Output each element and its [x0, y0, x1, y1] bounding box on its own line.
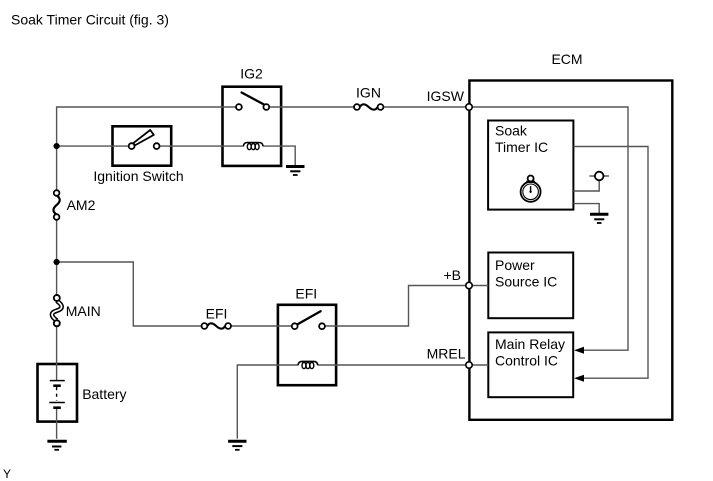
junction at EFI branch	[54, 259, 60, 265]
svg-text:MREL: MREL	[427, 345, 466, 361]
relay EFI switch blade and contacts	[292, 311, 325, 329]
svg-text:+B: +B	[443, 267, 461, 283]
svg-text:AM2: AM2	[67, 197, 96, 213]
battery cells	[49, 381, 65, 408]
junction at ignition row	[54, 143, 60, 149]
svg-text:Control IC: Control IC	[495, 353, 558, 369]
wire soak timer out to arrow 2	[573, 147, 648, 379]
wire MREL node to Main Relay Control IC	[469, 364, 488, 366]
terminal circle near soak timer	[595, 172, 604, 181]
IC U3 Main Relay Control box	[488, 332, 573, 397]
wire EFI relay out to +B node	[325, 286, 469, 327]
node +B	[466, 282, 472, 288]
svg-text:Source IC: Source IC	[495, 274, 557, 290]
wire IGN fuse to IGSW node	[383, 106, 469, 108]
ground soak timer	[590, 214, 608, 223]
relay EFI coil	[298, 361, 318, 368]
wire left vertical mid	[56, 220, 58, 296]
fuse AM2	[53, 190, 59, 220]
IC U1 Soak Timer box	[488, 121, 573, 210]
wire terminal cross line	[590, 175, 609, 177]
wire EFI coil left to ground drop	[237, 365, 298, 439]
svg-text:IG2: IG2	[240, 66, 263, 82]
svg-text:Ignition Switch: Ignition Switch	[93, 168, 183, 184]
wire IG2 switch out to IGN fuse	[269, 106, 354, 108]
ground EFI	[228, 441, 246, 450]
svg-text:Main Relay: Main Relay	[495, 336, 565, 352]
svg-text:Y: Y	[3, 467, 11, 481]
ignition switch box SW1	[113, 126, 172, 165]
ignition switch contacts and key	[129, 130, 160, 149]
wire battery to ground	[56, 408, 58, 439]
svg-text:MAIN: MAIN	[66, 303, 101, 319]
wire left vertical top	[56, 106, 58, 190]
wire IGSW node to arrow 1	[469, 107, 628, 350]
ground IG2	[286, 167, 305, 176]
fuse EFI	[202, 323, 232, 329]
node IGSW	[466, 104, 472, 110]
wire left vertical to battery	[56, 326, 58, 381]
svg-text:IGSW: IGSW	[427, 88, 465, 104]
node MREL	[466, 362, 472, 368]
svg-text:Soak Timer Circuit (fig. 3): Soak Timer Circuit (fig. 3)	[11, 11, 169, 27]
fusible link MAIN	[52, 295, 62, 326]
battery B1 box	[38, 364, 78, 422]
wire soak pin to terminal	[573, 180, 599, 191]
relay IG2 box	[223, 87, 282, 166]
wire ign row left	[57, 145, 129, 147]
svg-text:IGN: IGN	[356, 85, 381, 101]
wire ign row right to IG2 coil	[159, 145, 244, 147]
wire EFI coil to MREL node	[317, 364, 469, 366]
wire soak pin to ground	[573, 204, 599, 214]
wire EFI fuse to relay contact	[231, 325, 292, 327]
stopwatch icon in Soak Timer IC	[521, 176, 541, 202]
wire IG2 coil to ground	[263, 146, 296, 165]
arrow into Main Relay Control IC pin 2	[574, 375, 584, 382]
svg-text:EFI: EFI	[206, 305, 228, 321]
fuse IGN	[354, 104, 383, 110]
svg-text:Timer IC: Timer IC	[495, 139, 548, 155]
ground battery	[47, 441, 66, 450]
svg-text:Soak: Soak	[495, 123, 528, 139]
svg-text:Battery: Battery	[82, 386, 126, 402]
relay IG2 coil	[243, 143, 263, 150]
arrow into Main Relay Control IC pin 1	[574, 347, 584, 354]
svg-text:EFI: EFI	[295, 285, 317, 301]
wire junction to EFI fuse	[57, 262, 202, 326]
svg-text:Power: Power	[495, 257, 535, 273]
IC U2 Power Source box	[488, 253, 573, 319]
relay EFI box	[278, 305, 336, 385]
relay IG2 switch blade and contacts	[236, 93, 269, 110]
ECM box U_ECM	[469, 81, 672, 420]
wire +B node to Power Source IC	[469, 285, 488, 287]
svg-text:ECM: ECM	[551, 51, 582, 67]
wire top row left	[57, 106, 237, 108]
